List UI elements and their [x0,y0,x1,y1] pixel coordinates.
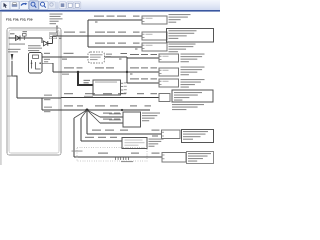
label 30 RD [64,53,74,54]
selector switch pin stubs right [121,82,124,84]
component box: battery junction box (left tall box) [7,28,61,155]
label: electronic manual temperature control (EMTC) module [169,44,196,53]
label under diode row [9,44,25,45]
pin label left1 [109,113,121,114]
wire: drop x=42 y=98->110 [41,98,43,110]
label 4 C2 [62,59,67,60]
wire: relay output elbow to y=72 [42,62,53,64]
connector box row y=134 [162,130,181,139]
highlight box: high blower relay label [182,130,214,143]
junction box inner border [9,30,59,153]
highlight box: EATC module (selected) [167,29,214,43]
label under switch [84,96,93,97]
ground bus ticks [115,157,117,160]
row y=157 labels [98,153,108,154]
connector label [106,54,112,58]
wire: power feed drop into junction box [56,26,58,37]
row y=141 labels [85,137,94,138]
label ground splice [72,151,83,152]
fuse symbol [23,34,27,37]
wire: junction box output row y=36 [53,35,89,37]
label F1 [10,33,15,34]
wire: S417 to y=98 run [12,76,17,98]
connector box row1 [142,16,167,24]
text inside lower relay box [125,140,145,146]
toolbar background [0,0,220,11]
wire row to instrument cluster y=20 [88,19,142,21]
fan: branch to A/C heater box pin1 [87,110,100,117]
label 18 LG [64,67,74,68]
svg-text:F53, F59, F53, F59: F53, F59, F53, F59 [6,18,33,22]
toolbar button: page right [74,2,81,9]
toolbar button: select arrow [1,1,10,9]
connector box row3 [142,43,167,51]
label pin 4 [59,38,62,39]
label: low speed blower motor relay [181,67,205,76]
label: ground distribution [187,152,214,164]
toolbar button: page left [67,2,74,9]
splice junction dot S2 [77,71,80,74]
toolbar button: back arrow [20,1,29,9]
label: blower motor relay [28,45,42,51]
label 30 RD/OG [117,16,126,17]
wire: branch to diode D2 [41,38,43,43]
wire: splice run y=98 inside box [17,97,42,99]
label 30 YE [64,93,73,94]
wire [48,42,53,44]
connector box mid2 [159,68,179,76]
label 4 C1 [152,136,158,137]
diode D1 [16,36,21,41]
power arrow feed (fuse output) [11,54,14,61]
connector pair labels at y=98 [44,95,52,101]
label C2.. [133,31,140,34]
label 30A [23,31,28,32]
component box: function selector switch [93,80,121,95]
junction dot 2 on y=110 [121,109,123,111]
component: A/C clutch relay (dashed) [88,52,105,63]
wire: relay output pin 30 (y=57) [42,56,88,58]
toolbar button: zoom-out [39,1,48,9]
connector box row y=157 [162,153,186,163]
label: instrument cluster [169,14,191,23]
pin label [95,22,98,23]
component box: blower relay lower [122,138,147,149]
toolbar button: print [10,1,19,9]
canvas left gray edge [0,12,2,165]
label: blower relay feed [8,49,21,53]
wire: low speed feed y=72 [61,71,127,73]
wire row: high speed relay y=58 [127,57,159,59]
wire from A/C relay to bracket [105,56,128,58]
wire row y=83 [127,82,159,84]
label 30 RD/OG [64,31,75,34]
connector box row2 [142,32,167,40]
toolbar button: disabled zoom [49,2,56,9]
label C270 above relay out [44,53,50,54]
label G302 [121,161,133,162]
label S417 [7,76,14,77]
wire continues y=97.5 to right [42,97,61,99]
label: electronic automatic temperature control (EATC) module [169,30,197,39]
toolbar button: zoom-in (pressed) [29,1,39,10]
bracket S3 vertical x=127 [126,57,128,83]
pin label [135,49,138,50]
splice S4 junction dot [86,109,89,112]
thick wire drop to selector switch [78,72,93,85]
wire riser to output [52,36,54,43]
label [80,31,86,34]
label: powertrain control module [172,104,204,110]
label C2.. [133,43,140,44]
label: A/C heater function switch [142,113,160,122]
label C228 [133,16,140,17]
junction dot bracket/row72 [126,71,128,73]
label: high speed blower motor relay [181,54,205,63]
connector pair labels y=110 [44,107,52,113]
wire: long run y=97.5 [61,97,159,99]
row y=134 labels [92,130,101,131]
connector box mid3 [159,79,179,87]
fan: branch to ground row y=157 [74,110,87,118]
connector label under relay out [44,59,50,63]
connector box mid1 [159,54,179,62]
fan: branch to A/C heater box pin2 [87,110,100,123]
diode D2 [44,41,48,46]
relay K1: blower motor relay [29,53,43,74]
pin label 4 [119,59,122,60]
dashed enclosure: splice pack [77,148,147,162]
label: blower relay coil [181,79,205,88]
label: hot at all times / battery junction box [50,14,63,25]
toolbar button: small dark [59,2,66,9]
component box: A/C heater control [123,112,141,127]
label 4 C240 [62,74,69,75]
wire: run y=110 [42,109,150,111]
fan: branch to row y=141 [81,110,87,118]
toolbar bottom blue rule [0,10,220,12]
connector box row y=97 [159,94,170,102]
wire row to EMTC module y=47 [88,46,142,48]
fan: branch down x=87 to row y=134 [86,110,88,134]
splice bracket S1 vertical [87,20,89,47]
label right of lower relay box [149,139,164,147]
wire row to EATC module y=36 [88,35,142,37]
pin label left2 [109,119,121,120]
highlight box: function selector switch label (selected) [172,90,213,102]
wire row y=72 to low speed relay connector [127,71,159,73]
wire: arrow drop to splice S417 [11,61,13,76]
wire: fuse row [9,37,43,39]
toolbar separator [56,2,58,9]
label T-BLWR [121,53,128,54]
connector label C2 dark [84,80,91,83]
connector label box C270 [49,33,57,39]
